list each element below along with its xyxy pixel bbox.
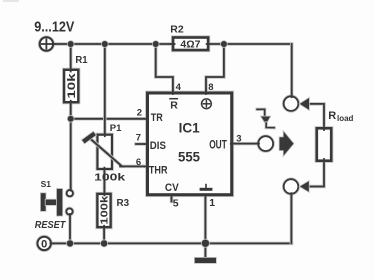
svg-text:OUT: OUT (209, 139, 227, 151)
wire R3 bottom to 0 rail (102, 227, 106, 243)
pin 8 (208, 82, 213, 93)
wire R1 bottom down to S1 top contact (69, 102, 73, 190)
wire top load terminal to R load top (309, 104, 324, 128)
svg-text:8: 8 (208, 82, 213, 93)
label IC1 (179, 119, 200, 135)
svg-text:R: R (328, 110, 336, 122)
node junction 0 rail S1 (66, 239, 74, 247)
node junction 0 rail ground (201, 239, 210, 248)
label R1 (75, 55, 88, 66)
terminal 0 (38, 237, 54, 251)
wire right vertical to bottom load terminal (290, 194, 294, 243)
wire bottom 0 rail (51, 242, 292, 246)
wire R2 left lead to pin 4 (156, 44, 173, 92)
wire right vertical to top load terminal (290, 44, 294, 97)
label P1 (110, 123, 122, 134)
ground stub (204, 243, 208, 257)
node junction R1 bottom TR (67, 115, 75, 123)
svg-text:2: 2 (137, 108, 142, 119)
pin 6 (136, 157, 141, 168)
resistor R load (317, 127, 331, 162)
wire CV pin 5 stub (170, 196, 174, 201)
wire pin 1 to 0 rail (204, 196, 208, 243)
top load terminal socket (284, 95, 299, 111)
label R3 (117, 197, 130, 209)
pushbutton S1 (41, 189, 73, 216)
resistor R1 (64, 68, 78, 103)
resistor R2 (171, 38, 211, 51)
label 555 (178, 148, 200, 164)
svg-text:DIS: DIS (150, 140, 166, 152)
svg-text:TR: TR (151, 112, 163, 124)
wire R load bottom to bottom load terminal (309, 161, 324, 187)
svg-text:P1: P1 (110, 123, 122, 134)
label R load (328, 110, 353, 123)
scan smudge top edge (3, 0, 19, 2)
svg-text:RESET: RESET (35, 220, 66, 231)
label R2 (170, 25, 184, 36)
svg-text:R: R (170, 100, 178, 112)
pin 4 (176, 82, 182, 93)
resistor R3 (97, 193, 110, 229)
svg-text:IC1: IC1 (179, 119, 200, 135)
svg-text:555: 555 (178, 148, 200, 164)
svg-text:S1: S1 (41, 179, 52, 189)
bottom load terminal socket (284, 179, 299, 195)
svg-text:0: 0 (41, 238, 47, 250)
svg-text:CV: CV (165, 182, 179, 194)
label OUT (209, 139, 227, 151)
svg-text:4: 4 (176, 82, 182, 93)
node junction rail P1 (101, 40, 109, 48)
wire R2 right lead to pin 8 (206, 44, 224, 92)
op-amp IC1 555 timer box (145, 90, 234, 197)
fat output arrow (280, 132, 294, 156)
internal ground mark (200, 185, 213, 191)
label DIS (150, 140, 166, 152)
supply terminal plus 9...12V (40, 37, 56, 50)
node junction R2 right (220, 40, 228, 48)
wire S1 bottom contact to 0 rail (68, 215, 72, 244)
svg-text:100k: 100k (94, 173, 126, 184)
wire OUT pin 3 to output terminal (233, 142, 258, 146)
node junction R2 left (152, 40, 160, 48)
wire top supply rail (53, 42, 292, 46)
internal plus circle (202, 99, 212, 109)
ground bar (195, 258, 216, 263)
label 9...12V (34, 20, 74, 36)
pin 3 (236, 133, 241, 144)
pin 2 (137, 108, 142, 119)
label CV (165, 182, 179, 194)
potentiometer P1 (85, 133, 123, 170)
label S1 (41, 179, 52, 189)
wire node to TR pin 2 (71, 117, 146, 121)
svg-text:R3: R3 (117, 197, 130, 209)
pin 7 (136, 133, 141, 144)
svg-text:10k: 10k (66, 72, 78, 98)
svg-text:1: 1 (209, 197, 215, 209)
pin 5 (173, 197, 179, 209)
wire P1 wiper to THR pin 6 (121, 165, 146, 169)
svg-text:3: 3 (236, 133, 241, 144)
svg-text:5: 5 (173, 197, 179, 209)
label TR (151, 112, 163, 124)
svg-text:9...12V: 9...12V (34, 20, 74, 36)
wire P1 bottom to R3 top (103, 170, 107, 195)
arrow plug top (300, 98, 309, 110)
wire supply to R1 top (69, 44, 73, 70)
label RESET (35, 220, 66, 231)
svg-text:7: 7 (136, 133, 141, 144)
label THR (149, 164, 168, 176)
falling edge trigger symbol (257, 109, 274, 127)
output terminal pin 3 socket (256, 136, 273, 151)
svg-text:6: 6 (136, 157, 141, 168)
value 100k P1 (94, 173, 126, 184)
node junction rail R1 (67, 40, 75, 48)
pin 1 (209, 197, 215, 209)
wire supply rail down to P1 top (103, 44, 107, 135)
svg-text:R2: R2 (170, 25, 184, 36)
svg-text:THR: THR (149, 164, 168, 176)
svg-text:R1: R1 (75, 55, 88, 66)
svg-text:load: load (337, 114, 354, 123)
arrow plug bottom (300, 181, 309, 191)
wire DIS pin 7 stub (136, 142, 146, 146)
internal reset label R bar (170, 99, 178, 112)
svg-text:100k: 100k (100, 195, 111, 224)
node junction 0 rail R3 (100, 239, 108, 247)
svg-text:4Ω7: 4Ω7 (180, 40, 200, 51)
